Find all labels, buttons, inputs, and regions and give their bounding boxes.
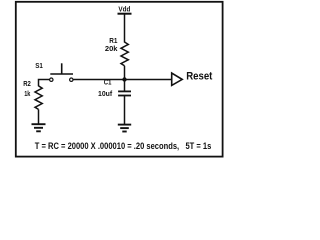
resistor R1 [121, 42, 128, 66]
wire S1 to R2 [39, 80, 50, 87]
svg-text:10uf: 10uf [98, 91, 113, 98]
wire switch S1 to node A [73, 79, 124, 81]
svg-text:Reset: Reset [186, 70, 212, 82]
node A junction [122, 77, 126, 81]
svg-text:R2: R2 [23, 81, 31, 88]
ground symbol (below C1) [118, 125, 131, 132]
wire Vdd to R1 [124, 14, 126, 43]
ground symbol (below R2) [32, 124, 46, 131]
svg-text:1k: 1k [24, 91, 30, 98]
pushbutton switch S1 [50, 63, 73, 81]
svg-text:S1: S1 [35, 63, 43, 70]
wire node A to reset buffer [125, 79, 172, 81]
wire node A to C1 [124, 80, 126, 92]
capacitor C1 [118, 91, 131, 95]
svg-text:R1: R1 [109, 38, 117, 45]
wire C1 to ground [124, 96, 126, 125]
wire R1 to node A [124, 66, 126, 80]
power Vdd [118, 7, 132, 14]
wire R2 to ground [38, 109, 40, 124]
svg-text:C1: C1 [104, 80, 112, 87]
buffer U1 (reset driver triangle) [172, 73, 183, 85]
svg-text:Vdd: Vdd [118, 7, 130, 14]
svg-text:T = RC = 20000 X .000010 = .20: T = RC = 20000 X .000010 = .20 seconds, … [35, 141, 212, 151]
resistor R2 [35, 86, 42, 110]
svg-text:20k: 20k [105, 46, 118, 53]
